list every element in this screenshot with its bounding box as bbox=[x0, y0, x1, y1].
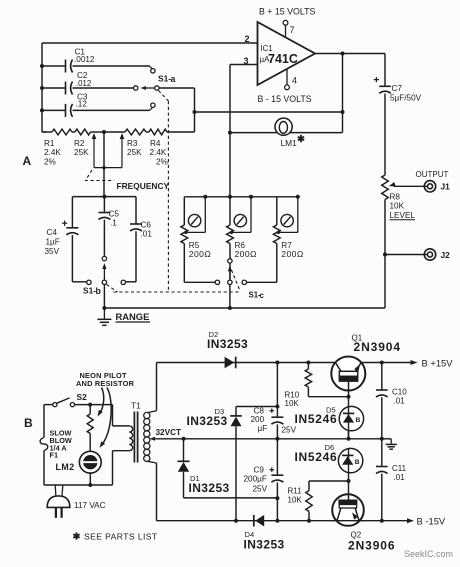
ground symbol B bbox=[382, 439, 397, 449]
svg-text:741C: 741C bbox=[268, 52, 298, 66]
svg-text:2.4K: 2.4K bbox=[44, 148, 61, 157]
svg-text:25K: 25K bbox=[127, 148, 142, 157]
wire: S2 to transformer bbox=[75, 403, 113, 426]
capacitor C10 .01 bbox=[376, 363, 407, 441]
svg-text:1µF: 1µF bbox=[46, 238, 60, 247]
svg-text:.1: .1 bbox=[110, 219, 117, 228]
svg-text:B -15V: B -15V bbox=[417, 516, 446, 527]
node: zener midpoint to ground bbox=[347, 437, 351, 441]
switch S1-a bbox=[134, 69, 176, 108]
trimmer R5 200 bbox=[181, 195, 211, 282]
RANGE label bbox=[116, 311, 151, 322]
svg-text:10K: 10K bbox=[288, 496, 303, 505]
wire: R8 bottom to ground bus bbox=[384, 255, 386, 309]
B+15V arrow label bbox=[411, 358, 454, 369]
svg-text:LEVEL: LEVEL bbox=[390, 211, 416, 220]
lamp LM2 neon bbox=[56, 451, 102, 487]
svg-text:J1: J1 bbox=[441, 182, 451, 192]
frequency gang dashed link bbox=[86, 170, 170, 191]
svg-text:.01: .01 bbox=[394, 473, 406, 482]
svg-text:200µF: 200µF bbox=[244, 475, 267, 484]
svg-text:RANGE: RANGE bbox=[116, 311, 150, 322]
svg-text:S1-: S1- bbox=[158, 74, 171, 84]
svg-text:.012: .012 bbox=[76, 79, 91, 88]
svg-text:2%: 2% bbox=[156, 158, 168, 167]
pin 2 label bbox=[245, 34, 250, 44]
watermark bbox=[404, 549, 453, 559]
resistor R11 10K bbox=[288, 479, 351, 523]
wire: opamp output bbox=[315, 52, 385, 133]
svg-text:200Ω: 200Ω bbox=[189, 249, 212, 259]
svg-text:10K: 10K bbox=[390, 202, 405, 211]
svg-text:R1: R1 bbox=[44, 139, 55, 148]
capacitor C5 .1 bbox=[98, 197, 119, 257]
svg-text:B + 15 VOLTS: B + 15 VOLTS bbox=[259, 7, 315, 17]
wire: Q1 emitter to B+15 bbox=[361, 361, 414, 365]
svg-text:25K: 25K bbox=[74, 148, 89, 157]
svg-text:✱: ✱ bbox=[73, 532, 82, 543]
trimmer R7 200 bbox=[273, 195, 303, 282]
node: rectifier B+ junction bbox=[275, 361, 279, 418]
svg-text:S2: S2 bbox=[77, 392, 88, 402]
svg-text:200Ω: 200Ω bbox=[235, 249, 258, 259]
svg-text:S1-: S1- bbox=[83, 286, 96, 296]
ground bus RANGE bbox=[102, 306, 385, 310]
capacitor C7 5uF/50V bbox=[374, 54, 422, 176]
transistor Q1 2N3904 bbox=[331, 334, 401, 397]
svg-text:OUTPUT: OUTPUT bbox=[416, 170, 449, 179]
pin 7 B+15V bbox=[259, 7, 315, 38]
wire: bottom of primary loop bbox=[44, 451, 113, 485]
op-amp IC1 uA741C bbox=[258, 22, 316, 85]
resistor R4 2.4K bbox=[146, 129, 195, 166]
svg-text:c: c bbox=[260, 291, 265, 300]
ground symbol A bbox=[97, 308, 111, 325]
svg-text:SeekIC.com: SeekIC.com bbox=[404, 549, 453, 559]
svg-text:✱: ✱ bbox=[297, 134, 306, 145]
svg-text:.0012: .0012 bbox=[74, 55, 95, 64]
svg-text:C4: C4 bbox=[47, 228, 58, 237]
svg-text:R4: R4 bbox=[150, 139, 161, 148]
svg-text:F1: F1 bbox=[50, 451, 59, 460]
section label B bbox=[24, 416, 33, 430]
svg-text:µF: µF bbox=[258, 424, 268, 433]
wire: Q2 to B-15 bbox=[332, 519, 410, 523]
svg-text:T1: T1 bbox=[131, 401, 141, 411]
resistor R1 2.4K bbox=[42, 129, 72, 166]
wire: S1-a common to feedback node bbox=[159, 88, 197, 132]
svg-text:R11: R11 bbox=[288, 487, 303, 496]
resistor (neon dropping) bbox=[87, 405, 93, 452]
section label A bbox=[23, 154, 32, 168]
svg-text:35V: 35V bbox=[45, 247, 60, 256]
svg-text:C6: C6 bbox=[141, 221, 152, 230]
svg-text:J2: J2 bbox=[441, 250, 451, 260]
wire: R5 bottom to S1-c contact bbox=[184, 281, 215, 283]
svg-text:FREQUENCY: FREQUENCY bbox=[117, 181, 170, 191]
svg-text:C7: C7 bbox=[392, 84, 403, 93]
svg-text:AND RESISTOR: AND RESISTOR bbox=[76, 379, 135, 388]
wire: B- unregulated rail bbox=[157, 519, 338, 523]
wiper R3 (frequency pot) bbox=[94, 133, 124, 169]
svg-text:A: A bbox=[23, 154, 32, 168]
transistor Q2 2N3906 bbox=[332, 493, 395, 553]
svg-text:B - 15 VOLTS: B - 15 VOLTS bbox=[258, 94, 312, 104]
svg-text:2.4K: 2.4K bbox=[150, 148, 167, 157]
svg-text:.12: .12 bbox=[76, 100, 88, 109]
pin 3 label bbox=[244, 56, 249, 66]
svg-text:C5: C5 bbox=[109, 210, 120, 219]
diode D4 IN3253 bbox=[244, 515, 285, 552]
wire: S1-b pivot to ground bus bbox=[103, 285, 105, 309]
svg-text:2N3906: 2N3906 bbox=[348, 539, 395, 553]
resistor R10 10K bbox=[285, 361, 351, 409]
capacitor C4 1uF 35V bbox=[45, 197, 87, 282]
svg-text:LM1: LM1 bbox=[281, 138, 298, 148]
svg-text:4: 4 bbox=[292, 76, 297, 86]
capacitor C3 .12 bbox=[42, 93, 152, 117]
capacitor C9 200uF bbox=[244, 439, 284, 523]
svg-text:IN3253: IN3253 bbox=[244, 538, 285, 552]
svg-text:B +15V: B +15V bbox=[422, 358, 454, 369]
diode D1 IN3253 bbox=[178, 437, 278, 498]
svg-text:SEE PARTS LIST: SEE PARTS LIST bbox=[84, 531, 158, 541]
svg-text:IN5246: IN5246 bbox=[295, 412, 338, 426]
resistor R2 25K bbox=[42, 129, 104, 157]
wire: R7 bottom to S1-c contact bbox=[247, 281, 277, 283]
svg-text:10K: 10K bbox=[285, 399, 300, 408]
transformer T1 primary bbox=[113, 401, 142, 451]
zener D5 IN5246B bbox=[295, 397, 364, 439]
svg-text:2N3904: 2N3904 bbox=[354, 340, 401, 354]
svg-text:200: 200 bbox=[251, 415, 265, 424]
trimmer R6 200 bbox=[227, 195, 257, 282]
switch S1-c bbox=[215, 259, 264, 300]
svg-text:C11: C11 bbox=[392, 464, 407, 473]
wire: feedback top wire pin2 to C bus bbox=[42, 43, 258, 132]
svg-text:a: a bbox=[171, 74, 176, 84]
resistor R8 10K LEVEL bbox=[382, 175, 416, 255]
capacitor C1 .0012 bbox=[42, 48, 152, 73]
svg-text:B: B bbox=[24, 416, 33, 430]
resistor R3 25K bbox=[102, 129, 146, 157]
wire: B+ unregulated rail bbox=[157, 362, 336, 364]
fuse F1 slow blow 1/4A bbox=[40, 405, 72, 485]
svg-text:C10: C10 bbox=[392, 388, 407, 397]
svg-text:.01: .01 bbox=[141, 230, 153, 239]
transformer T1 core bbox=[134, 412, 137, 463]
callout NEON PILOT AND RESISTOR bbox=[76, 371, 135, 448]
svg-text:32VCT: 32VCT bbox=[156, 428, 181, 437]
B-15V arrow label bbox=[407, 516, 446, 527]
svg-text:B: B bbox=[356, 417, 361, 424]
svg-text:R3: R3 bbox=[127, 139, 138, 148]
wire: pin3 input bbox=[228, 65, 258, 197]
switch S1-b bbox=[83, 256, 126, 296]
svg-text:R2: R2 bbox=[74, 139, 85, 148]
zener D6 IN5246B bbox=[295, 443, 363, 493]
wire: wiper junction down bbox=[103, 132, 105, 197]
svg-text:5µF/50V: 5µF/50V bbox=[390, 94, 422, 103]
svg-text:25V: 25V bbox=[253, 485, 268, 494]
wire: S1-c pivot to ground bus bbox=[228, 285, 232, 311]
capacitor C8 200uF bbox=[251, 407, 297, 441]
svg-text:IN3253: IN3253 bbox=[207, 337, 248, 351]
svg-text:b: b bbox=[96, 286, 102, 296]
wire: pots top wire bbox=[184, 195, 297, 199]
pin 4 B-15V bbox=[258, 69, 312, 104]
svg-text:.01: .01 bbox=[394, 397, 406, 406]
transformer T1 secondary 32VCT bbox=[144, 363, 382, 521]
svg-text:IN3253: IN3253 bbox=[189, 481, 230, 495]
svg-text:2: 2 bbox=[245, 34, 250, 44]
svg-text:IN3253: IN3253 bbox=[187, 414, 228, 428]
svg-text:B: B bbox=[355, 459, 360, 466]
diode D3 IN3253 bbox=[187, 407, 278, 521]
svg-text:C9: C9 bbox=[254, 466, 265, 475]
svg-text:7: 7 bbox=[290, 25, 295, 35]
capacitor C6 .01 bbox=[126, 197, 153, 282]
plug 117 VAC bbox=[47, 485, 105, 518]
see parts list note bbox=[73, 531, 158, 542]
diode D2 IN3253 bbox=[207, 330, 248, 368]
svg-text:25V: 25V bbox=[282, 426, 297, 435]
wire: range cap top wire bbox=[72, 195, 136, 199]
svg-text:2%: 2% bbox=[44, 158, 56, 167]
jack J2 bbox=[383, 249, 450, 260]
lamp LM1 bbox=[230, 118, 343, 148]
jack J1 OUTPUT bbox=[394, 170, 451, 192]
svg-text:117 VAC: 117 VAC bbox=[74, 501, 106, 510]
wiper R2 (frequency pot) bbox=[92, 133, 97, 168]
svg-text:IN5246: IN5246 bbox=[295, 450, 338, 464]
node: C-bus junctions bbox=[40, 64, 44, 112]
svg-text:LM2: LM2 bbox=[56, 462, 75, 472]
svg-text:R8: R8 bbox=[390, 193, 401, 202]
capacitor C2 .012 bbox=[42, 71, 134, 95]
svg-text:200Ω: 200Ω bbox=[281, 249, 304, 259]
capacitor C11 .01 bbox=[376, 439, 407, 521]
dashed gang S1-a to S1-c bbox=[107, 91, 241, 293]
wire: node to opamp output column bbox=[195, 110, 345, 114]
switch S2 bbox=[44, 392, 87, 407]
